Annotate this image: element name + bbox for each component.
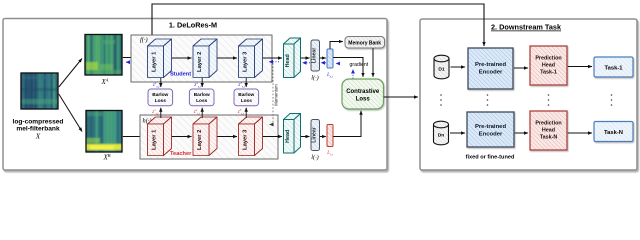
svg-text:Head: Head (542, 128, 555, 134)
Barlow loss column 2 (201, 78, 203, 87)
vertical dots column 3 (548, 94, 550, 106)
svg-text:Loss: Loss (155, 98, 167, 104)
svg-text:mel-filterbank: mel-filterbank (16, 125, 60, 132)
svg-text:Barlow: Barlow (152, 92, 168, 98)
svg-text:gradient: gradient (350, 62, 369, 68)
wire: teacher linear to embedding (320, 136, 326, 138)
wire: gradient back to XA (blue dotted) (126, 61, 140, 63)
prediction head task-N (530, 111, 567, 150)
wire: teacher embedding to contrastive loss (333, 111, 361, 137)
wire: XA to student encoder (123, 57, 145, 59)
svg-text:Prediction: Prediction (535, 56, 561, 62)
momentum update dashed wire (270, 63, 274, 125)
teacher head cuboid (284, 114, 301, 154)
svg-text:Task-N: Task-N (540, 135, 558, 141)
wire: prediction head to task-N (568, 132, 592, 134)
pre-trained encoder task-1 (468, 48, 513, 89)
outer frame box: pretraining section (3, 19, 387, 171)
svg-text:Encoder: Encoder (479, 70, 503, 76)
dataset cylinder D1 (434, 55, 449, 79)
student embedding vector (327, 49, 333, 68)
wire: student embedding gradient path to contrastive loss (333, 58, 363, 77)
dataset cylinder Dn (434, 121, 449, 145)
svg-text:Pre-trained: Pre-trained (475, 62, 507, 68)
wire: student linear to embedding (320, 57, 326, 59)
svg-text:D1: D1 (438, 67, 445, 73)
svg-text:Task-1: Task-1 (605, 66, 624, 72)
wire: pretrained encoder transfer (top connector) (152, 4, 484, 46)
wire: gradient back linear to head (blue dotted) (303, 62, 311, 64)
wire: encoder to prediction head task-1 (514, 67, 528, 69)
wire: student layer1 to layer2 (172, 57, 192, 59)
Barlow loss column 3 (245, 78, 247, 87)
svg-text:Head: Head (542, 63, 555, 69)
teacher layer 3 cuboid (239, 117, 263, 156)
svg-text:Prediction: Prediction (535, 121, 561, 127)
student encoder dashed box f(.) (131, 35, 272, 82)
svg-text:Linear: Linear (311, 127, 317, 143)
wire: X to XA (59, 59, 82, 88)
pre-trained encoder task-N (467, 112, 514, 147)
teacher encoder dashed box h(.) (140, 115, 278, 159)
teacher linear projection (311, 120, 320, 151)
svg-text:Loss: Loss (196, 98, 208, 104)
svg-text:fixed or fine-tuned: fixed or fine-tuned (466, 155, 515, 161)
teacher layer 1 cuboid (148, 117, 172, 156)
wire: gradient back student head to f (blue dotted) (269, 61, 279, 63)
svg-text:Layer 1: Layer 1 (152, 51, 158, 72)
svg-text:Layer 2: Layer 2 (197, 52, 203, 72)
student layer 2 cuboid (193, 39, 217, 78)
wire: teacher layer2 to layer3 (217, 136, 237, 138)
svg-text:l(·): l(·) (311, 154, 318, 161)
wire: Dn to encoder (450, 132, 465, 134)
vertical dots column 4 (611, 94, 613, 106)
memory bank (345, 37, 385, 49)
svg-text:Encoder: Encoder (479, 132, 503, 138)
svg-text:Teacher: Teacher (170, 151, 192, 157)
svg-text:Layer 3: Layer 3 (243, 129, 249, 150)
svg-text:f(·): f(·) (140, 37, 148, 44)
svg-text:Loss: Loss (356, 97, 371, 103)
svg-text:l(·): l(·) (311, 75, 318, 82)
svg-text:Task-N: Task-N (604, 130, 623, 136)
wire: gradient up from contrastive loss (blue dotted) (352, 70, 354, 79)
student layer 1 cuboid (148, 39, 172, 78)
task-1 box (594, 57, 633, 77)
svg-text:Contrastive: Contrastive (346, 89, 380, 95)
wire: student layer2 to layer3 (217, 57, 237, 59)
wire: teacher layer1 to layer2 (172, 136, 192, 138)
wire: D1 to encoder (451, 66, 466, 68)
teacher embedding vector (327, 125, 333, 147)
vertical dots column 1 (440, 94, 442, 106)
Barlow loss column 1 (160, 78, 162, 87)
spectrogram XB (augmented view B) (86, 111, 122, 153)
svg-text:Task-1: Task-1 (540, 70, 557, 76)
svg-text:Head: Head (285, 54, 291, 67)
student head cuboid (284, 38, 301, 78)
wire: prediction head to task-1 (568, 66, 592, 68)
student linear projection (311, 40, 320, 71)
outer frame box: downstream section (420, 19, 637, 170)
svg-text:X: X (35, 133, 41, 141)
svg-text:Linear: Linear (311, 48, 317, 64)
wire: student layer3 to head (263, 57, 282, 59)
wire: X to XB (59, 94, 82, 132)
wire: teacher layer3 to head (263, 136, 282, 138)
svg-text:Layer 2: Layer 2 (197, 130, 203, 150)
spectrogram XA (augmented view A) (85, 35, 122, 76)
svg-text:Student: Student (170, 72, 191, 78)
wire: teacher head to linear (301, 136, 310, 138)
svg-text:Layer 1: Layer 1 (152, 129, 158, 150)
prediction head task-1 (530, 46, 567, 85)
svg-text:Momentum: Momentum (274, 84, 279, 106)
wire: memory bank to contrastive loss (372, 48, 374, 77)
vertical dots column 2 (487, 94, 489, 106)
svg-text:1. DeLoRes-M: 1. DeLoRes-M (169, 21, 217, 30)
svg-text:Pre-trained: Pre-trained (475, 124, 507, 130)
svg-text:Barlow: Barlow (194, 92, 210, 98)
wire: encoder to prediction head task-N (515, 132, 528, 134)
svg-text:Barlow: Barlow (238, 92, 254, 98)
svg-text:Loss: Loss (241, 98, 253, 104)
svg-text:Layer 3: Layer 3 (243, 51, 249, 72)
svg-text:Dn: Dn (438, 133, 445, 139)
spectrogram X (log-compressed mel-filterbank) (21, 73, 58, 109)
task-N box (594, 122, 633, 142)
contrastive loss (342, 79, 384, 109)
wire: gradient back embedding to linear (blue dotted) (321, 62, 326, 64)
wire: gradient back arrow (blue dotted, small) (336, 63, 340, 65)
wire: student head to linear (301, 57, 310, 59)
wire: contrastive section to downstream (384, 96, 418, 98)
teacher layer 2 cuboid (193, 117, 217, 156)
svg-text:Memory Bank: Memory Bank (348, 41, 381, 47)
svg-text:2. Downstream Task: 2. Downstream Task (491, 23, 562, 32)
wire: student embedding to memory bank (330, 42, 343, 49)
wire: XB to teacher encoder (123, 136, 145, 138)
svg-text:Head: Head (285, 130, 291, 143)
student layer 3 cuboid (239, 39, 263, 78)
